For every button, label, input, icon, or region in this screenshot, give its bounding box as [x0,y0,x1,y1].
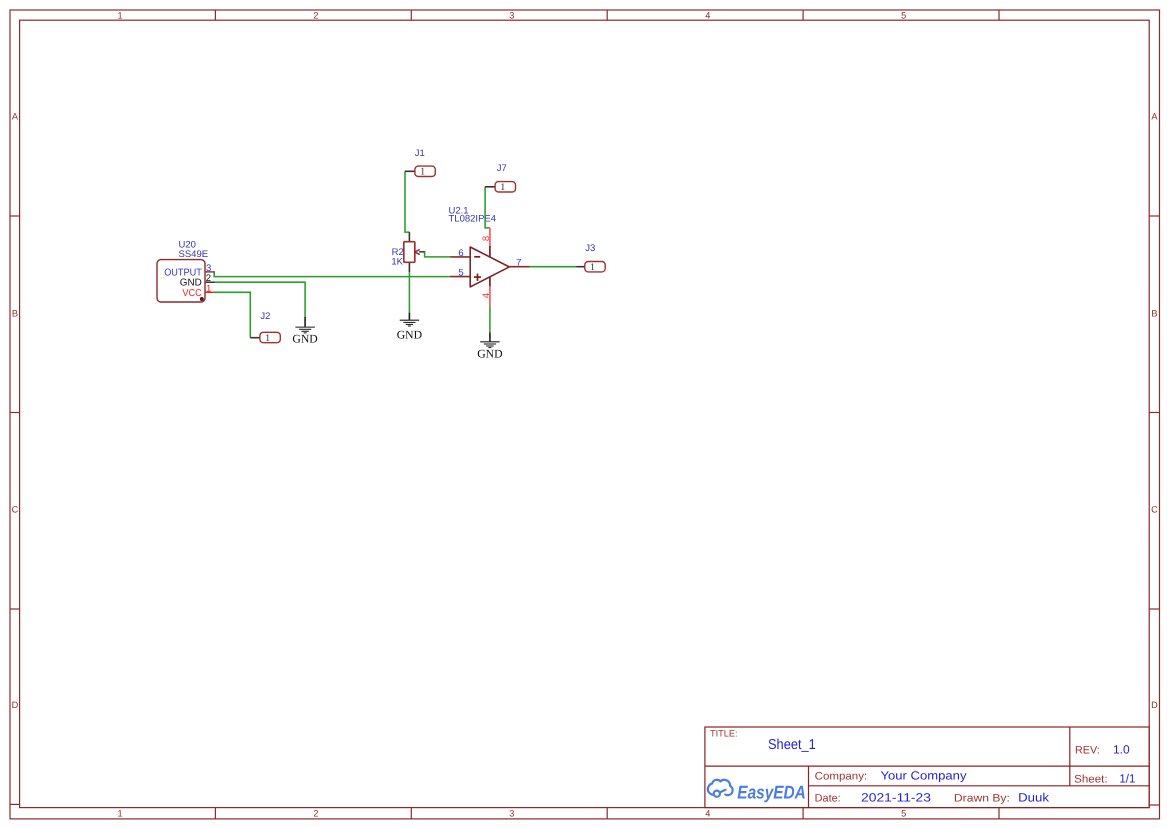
frame column labels top [118,11,907,21]
J1 pad [415,166,435,176]
U20 body [157,260,205,302]
J2 pin stub [250,337,260,339]
svg-text:1.0: 1.0 [1113,743,1130,757]
svg-text:4: 4 [705,11,710,21]
frame row ticks left [10,216,20,609]
svg-text:3: 3 [509,11,514,21]
svg-text:1: 1 [500,182,505,193]
U20 pin 1 stub [205,291,214,293]
hall sensor U20 SS49E [157,240,214,302]
U2.1 pin 5 stub [450,276,470,278]
svg-text:1: 1 [420,167,425,178]
J7 pin stub [485,186,495,188]
R2 wiper arrow [415,250,420,255]
connector J7 [485,163,515,193]
svg-text:C: C [1151,504,1158,514]
svg-text:REV:: REV: [1075,745,1100,757]
ground symbol GND (U2.1 pin4) [480,332,499,347]
frame row ticks right [1149,216,1159,609]
R2 top lead [408,232,410,242]
U2.1 triangle body [470,247,509,287]
svg-text:2: 2 [313,11,318,21]
svg-text:GND: GND [397,329,422,342]
J3 pin stub [576,266,585,268]
svg-text:5: 5 [901,808,906,818]
svg-text:2021-11-23: 2021-11-23 [861,791,931,805]
svg-text:GND: GND [477,347,502,360]
svg-text:1: 1 [590,262,595,273]
svg-text:Your Company: Your Company [881,769,967,783]
svg-text:3: 3 [509,808,514,818]
svg-text:7: 7 [516,258,521,269]
U2.1 pin 8 stub (V+) [489,228,491,248]
U20 pin 3 stub [205,271,214,273]
svg-text:5: 5 [458,268,463,279]
svg-text:TITLE:: TITLE: [710,729,738,739]
U2.1 plus sign [474,276,481,278]
R2 body [404,242,415,263]
svg-text:B: B [12,308,18,318]
EasyEDA logo cloud icon [708,780,733,797]
frame column labels bottom [118,808,907,818]
svg-text:2: 2 [313,808,318,818]
frame row labels right [1151,111,1158,710]
connector J2 [250,311,280,344]
svg-text:A: A [12,111,19,121]
ground symbol GND (R2) [400,313,419,326]
svg-text:1: 1 [265,333,270,344]
wire R2 wiper to U2.1 pin6 [424,252,451,257]
R2 wiper tail [419,251,424,253]
J3 pad [585,262,605,272]
op-amp U2.1 TL082IPE4 [450,228,529,307]
wire U2.1 pin7 to J3 [530,266,577,268]
wire U20.1 VCC to J2 [214,292,251,337]
wire J1 to R2 top [405,171,409,232]
frame row labels left [12,111,19,710]
svg-text:B: B [1151,308,1157,318]
svg-text:J2: J2 [260,311,270,322]
svg-text:VCC: VCC [182,288,201,299]
connector J3 [576,243,605,273]
J1 pin stub [405,170,415,172]
svg-text:D: D [1151,700,1158,710]
svg-text:D: D [12,700,19,710]
svg-text:Date:: Date: [815,793,841,805]
frame margin band bottom-right closure tick [1149,804,1159,806]
svg-text:J7: J7 [497,163,507,174]
svg-text:Sheet:: Sheet: [1074,774,1108,786]
J7 pad [495,182,515,192]
svg-text:SS49E: SS49E [179,249,209,260]
svg-text:Duuk: Duuk [1018,791,1050,805]
wire U2.1 pin4 to ground [489,306,491,332]
wire U20.3 OUTPUT to U2.1 pin5 [214,271,450,276]
wire R2 bottom to ground [408,272,410,313]
svg-text:1: 1 [118,808,123,818]
svg-text:J1: J1 [415,148,425,159]
svg-text:4: 4 [705,808,710,818]
svg-text:4: 4 [481,293,492,298]
frame column ticks top [215,10,999,20]
frame column ticks bottom [215,808,999,819]
svg-text:1: 1 [118,11,123,21]
wire J7 to U2.1 pin8 [485,187,490,228]
R2 bottom lead [408,262,410,272]
U2.1 minus sign [474,256,480,258]
potentiometer R2 1K [391,232,424,272]
U2.1 pin 7 stub [510,266,530,268]
J2 pad [260,332,280,342]
title block borders [705,727,1149,808]
svg-text:5: 5 [901,11,906,21]
frame margin band bottom-left closure tick [10,803,20,805]
svg-text:8: 8 [481,236,492,241]
wire U20.2 GND to ground [214,282,305,317]
svg-text:C: C [12,504,19,514]
svg-text:1/1: 1/1 [1119,772,1135,786]
ground symbol GND (U20) [295,317,314,333]
U2.1 pin 4 stub (V-) [489,276,491,287]
svg-text:A: A [1151,111,1158,121]
svg-text:EasyEDA: EasyEDA [737,782,806,803]
svg-text:Company:: Company: [815,771,868,783]
svg-text:Sheet_1: Sheet_1 [768,737,816,753]
connector J1 [405,148,435,177]
svg-text:6: 6 [458,248,463,259]
svg-text:GND: GND [292,333,317,346]
svg-text:TL082IPE4: TL082IPE4 [449,213,497,224]
U20 pin 2 stub [205,281,214,283]
svg-text:1: 1 [206,284,211,295]
svg-text:Drawn By:: Drawn By: [954,793,1010,805]
svg-text:J3: J3 [585,243,595,254]
U2.1 pin 6 stub [450,256,470,258]
svg-text:1K: 1K [391,257,403,268]
U20 no-connect dot [200,297,204,301]
